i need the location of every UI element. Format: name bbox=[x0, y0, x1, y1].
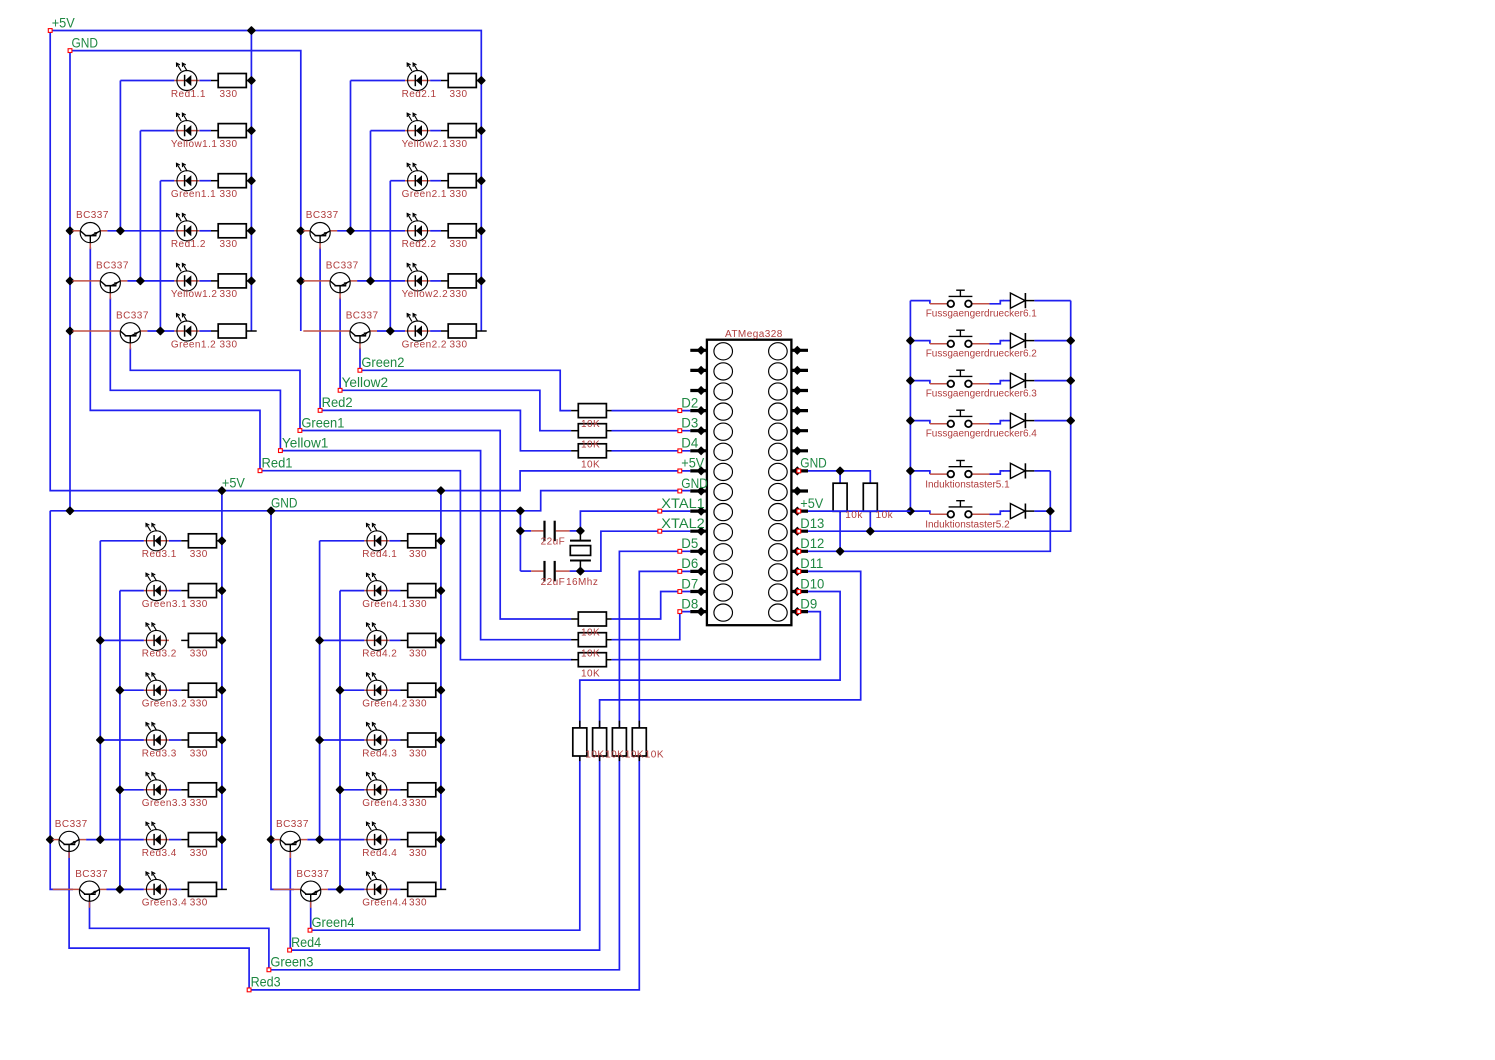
svg-text:BC337: BC337 bbox=[326, 260, 359, 271]
wire transistor to LED row 7 block3 bbox=[86, 839, 144, 841]
junction block2 trunk row y=230.8 bbox=[478, 227, 485, 234]
svg-text:D4: D4 bbox=[681, 436, 698, 451]
junction block3 trunk Red3.4 row bbox=[219, 836, 226, 843]
junction block3 trunk row y=690.2 bbox=[219, 687, 226, 694]
transistor Q7 BC337 bbox=[53, 831, 86, 858]
junction block1 LED trunk 3 bbox=[157, 328, 164, 335]
LED Green1.1 bbox=[174, 163, 199, 190]
junction block3 trunk row 0 bbox=[219, 537, 226, 544]
svg-text:Induktionstaster5.1: Induktionstaster5.1 bbox=[925, 479, 1010, 490]
svg-text:Red3.4: Red3.4 bbox=[142, 848, 177, 859]
wire LED row 6 block3 horizontal bbox=[120, 789, 144, 791]
svg-text:Green4: Green4 bbox=[312, 915, 355, 930]
resistor 330 (Green4.1) bbox=[401, 584, 441, 598]
junction block3 green trunk row3 bbox=[117, 786, 124, 793]
svg-text:10K: 10K bbox=[581, 459, 600, 470]
wire pushbutton S5 to diode bbox=[990, 471, 1004, 474]
wire diode D5.1 to rail bbox=[1034, 470, 1050, 472]
wire resistor R10K-3 to IC pin D4 bbox=[612, 450, 691, 452]
diode (Fussgaengerdruecker6.1) bbox=[1003, 293, 1034, 308]
LED Red4.1 bbox=[364, 523, 389, 550]
svg-text:330: 330 bbox=[450, 189, 468, 200]
wire resistor R10K-9 to net Green3 bbox=[269, 756, 620, 970]
wire pushbutton S2 to diode bbox=[990, 341, 1004, 344]
svg-text:330: 330 bbox=[190, 798, 208, 809]
wire LED row 7 block4 to resistor bbox=[389, 839, 400, 841]
wire pushbutton S6 to diode bbox=[990, 511, 1004, 514]
svg-text:D12: D12 bbox=[800, 536, 824, 551]
svg-text:Green2.1: Green2.1 bbox=[402, 189, 447, 200]
svg-text:10K: 10K bbox=[581, 648, 600, 659]
LED Yellow2.2 bbox=[405, 264, 430, 291]
wire LED row 3 block2 horizontal bbox=[390, 180, 405, 182]
wire LED row 1 block1 horizontal bbox=[120, 80, 174, 82]
junction bottom GND line / capacitor chain bbox=[517, 507, 524, 514]
wire Q1 base to net Red1 bbox=[90, 248, 260, 471]
svg-text:XTAL1: XTAL1 bbox=[661, 496, 705, 511]
junction block4 green trunk Q10 bbox=[337, 886, 344, 893]
svg-text:10k: 10k bbox=[845, 510, 863, 521]
junction GND rail Q9 row bbox=[268, 836, 275, 843]
svg-text:Green4.4: Green4.4 bbox=[362, 898, 407, 909]
resistor 10K (Red3/D6) bbox=[632, 721, 646, 761]
wire LED row 6 block1 to resistor bbox=[199, 330, 211, 332]
wire LED row 4 block3 to resistor bbox=[169, 689, 181, 691]
junction block1 LED trunk 1 bbox=[117, 227, 124, 234]
transistor Q3 BC337 bbox=[73, 323, 148, 350]
junction GND rail block2 y=280.9 bbox=[297, 278, 304, 285]
svg-text:10K: 10K bbox=[581, 439, 600, 450]
junction block4 red trunk Q9 bbox=[316, 836, 323, 843]
LED Green4.2 bbox=[364, 673, 389, 700]
svg-text:Yellow1.2: Yellow1.2 bbox=[171, 289, 218, 300]
svg-text:10K: 10K bbox=[645, 750, 664, 761]
junction block4 red trunk row3 bbox=[316, 737, 323, 744]
resistor 330 (Red3.3) bbox=[181, 733, 221, 747]
node +5V top anchor bbox=[48, 29, 52, 33]
wire Q7 base to net Red3 bbox=[69, 851, 249, 990]
svg-text:22uF: 22uF bbox=[541, 536, 566, 547]
wire LED row 2 block3 horizontal bbox=[120, 590, 144, 592]
svg-text:330: 330 bbox=[190, 649, 208, 660]
node GND top anchor bbox=[68, 49, 72, 53]
node D10 anchor bbox=[797, 590, 801, 594]
svg-text:+5V: +5V bbox=[681, 456, 704, 471]
wire LED row 5 block4 horizontal bbox=[320, 739, 365, 741]
resistor 330 (Green3.4) bbox=[181, 882, 227, 896]
LED Green4.1 bbox=[364, 573, 389, 600]
crystal Q11 16Mhz bbox=[570, 533, 591, 569]
wire LED row 1 block1 vertical to transistor bbox=[119, 81, 121, 231]
wire IC pin D5 to resistor R10K-9 bbox=[619, 551, 690, 728]
svg-text:Red3.2: Red3.2 bbox=[142, 649, 177, 660]
wire +5V block3 resistor trunk bbox=[221, 491, 223, 890]
junction block3 trunk row 1 bbox=[219, 637, 226, 644]
junction induction diode rail bbox=[1047, 508, 1054, 515]
node GND right anchor bbox=[797, 469, 801, 473]
junction block2 trunk row y=280.9 bbox=[478, 278, 485, 285]
svg-text:Green1: Green1 bbox=[301, 415, 344, 430]
junction block3 trunk row y=590.6 bbox=[219, 587, 226, 594]
resistor 330 (Red4.3) bbox=[401, 733, 441, 747]
junction block1 trunk row y=130.6 bbox=[248, 127, 255, 134]
ic U1 ATMega328 bbox=[690, 340, 808, 626]
resistor 10K (Yellow1/D8) bbox=[571, 633, 611, 647]
node Green2 anchor bbox=[358, 368, 362, 372]
wire transistor to LED row 7 block4 bbox=[307, 839, 364, 841]
wire resistor R10K-4 to IC pin D7 bbox=[612, 592, 691, 620]
svg-text:330: 330 bbox=[220, 289, 238, 300]
wire resistor R10K-6 under IC to pin D9 bbox=[612, 612, 821, 660]
node Red2 anchor bbox=[318, 409, 322, 413]
wire resistor R10K-8 to net Red4 bbox=[290, 756, 600, 950]
wire rail to pushbutton S4 bbox=[910, 421, 930, 424]
junction block4 trunk row 1 bbox=[438, 637, 445, 644]
wire GND bottom rail to IC GND pin bbox=[50, 491, 690, 511]
node Green1 anchor bbox=[298, 429, 302, 433]
wire LED row 1 block4 horizontal bbox=[320, 540, 365, 542]
LED Green3.4 bbox=[144, 872, 169, 899]
transistor Q6 BC337 bbox=[303, 323, 377, 350]
wire Q2 base to net Yellow1 bbox=[110, 298, 280, 451]
junction block3 trunk row 3 bbox=[219, 836, 226, 843]
junction block2 trunk row y=180.7 bbox=[478, 177, 485, 184]
LED Red4.2 bbox=[364, 623, 389, 650]
pushbutton Fussgaengerdruecker6.1 bbox=[930, 290, 990, 307]
wire block4 red LED trunk to Q9 bbox=[319, 541, 321, 840]
junction block4 trunk row 2 bbox=[438, 737, 445, 744]
diode (Induktionstaster5.1) bbox=[1003, 463, 1034, 478]
capacitor C1 22uF bbox=[531, 521, 569, 541]
svg-text:Yellow1.1: Yellow1.1 bbox=[171, 139, 218, 150]
node +5V IC anchor bbox=[678, 469, 682, 473]
junction block4 trunk row 0 bbox=[438, 537, 445, 544]
wire rail to pushbutton S5 bbox=[910, 471, 930, 474]
svg-text:Green4.3: Green4.3 bbox=[362, 798, 407, 809]
LED Green3.1 bbox=[144, 573, 169, 600]
svg-text:330: 330 bbox=[190, 898, 208, 909]
transistor Q1 BC337 bbox=[73, 223, 108, 250]
wire LED row 2 block2 horizontal bbox=[371, 130, 406, 132]
wire Q6 base to net Green2 bbox=[359, 348, 361, 371]
wire LED row 4 block4 horizontal bbox=[340, 689, 364, 691]
junction GND rail block1 y=280.9 bbox=[67, 278, 74, 285]
wire LED row 7 block3 to resistor bbox=[169, 839, 181, 841]
node Red3 anchor bbox=[247, 988, 251, 992]
LED Green2.1 bbox=[405, 163, 430, 190]
svg-text:10K: 10K bbox=[585, 750, 604, 761]
junction pushbutton rail / S5 feed bbox=[907, 468, 914, 475]
junction GND rail block2 y=230.8 bbox=[297, 227, 304, 234]
junction block3 trunk row y=789.8 bbox=[219, 786, 226, 793]
LED Red2.1 bbox=[405, 63, 430, 90]
wire GND top rail to block2 transistor rail bbox=[70, 51, 301, 331]
wire block3 red LED trunk to Q7 bbox=[99, 541, 101, 840]
wire GND chain to capacitor C2 bbox=[520, 570, 531, 572]
junction block4 green trunk row2 bbox=[337, 687, 344, 694]
svg-text:BC337: BC337 bbox=[96, 260, 129, 271]
resistor 330 (Green2.1) bbox=[441, 174, 481, 188]
svg-text:BC337: BC337 bbox=[76, 210, 109, 221]
junction pushbutton rail y=420.6 bbox=[907, 417, 914, 424]
resistor 10K (Green3/D5) bbox=[612, 721, 626, 761]
svg-text:BC337: BC337 bbox=[306, 210, 339, 221]
resistor 10K (Green2/D2) bbox=[571, 404, 611, 418]
wire transistor Q2 emitter to LED row 5 block1 bbox=[127, 280, 174, 282]
junction pushbutton rail y=340.6 bbox=[907, 337, 914, 344]
wire +5V top rail to block2 resistor trunk bbox=[50, 31, 481, 332]
LED Red2.2 bbox=[405, 213, 430, 240]
svg-text:Red3: Red3 bbox=[251, 975, 281, 990]
svg-text:330: 330 bbox=[220, 339, 238, 350]
svg-text:330: 330 bbox=[450, 289, 468, 300]
svg-text:330: 330 bbox=[220, 89, 238, 100]
wire resistor R10K-8 under IC to pin D11 bbox=[600, 571, 861, 728]
junction D12 row / resistor R10k-11 bbox=[837, 548, 844, 555]
svg-text:330: 330 bbox=[190, 748, 208, 759]
LED Red3.4 bbox=[144, 822, 169, 849]
wire rail to pushbutton S2 bbox=[910, 341, 930, 344]
svg-text:Green4.1: Green4.1 bbox=[362, 599, 407, 610]
wire LED row 5 block1 to resistor bbox=[199, 280, 211, 282]
wire LED row 6 block3 to resistor bbox=[169, 789, 181, 791]
svg-text:Red3.3: Red3.3 bbox=[142, 748, 177, 759]
resistor 10K (Green4/D10) bbox=[573, 721, 587, 761]
wire resistor R10K-7 under IC to pin D10 bbox=[580, 592, 840, 728]
svg-text:16Mhz: 16Mhz bbox=[566, 577, 598, 588]
resistor 10K (Red2/D4) bbox=[571, 444, 611, 458]
svg-text:Yellow2: Yellow2 bbox=[342, 375, 389, 390]
wire LED row 4 block3 horizontal bbox=[120, 689, 144, 691]
svg-text:330: 330 bbox=[220, 189, 238, 200]
node Green4 anchor bbox=[308, 928, 312, 932]
wire IC pin D13 to pushbutton diode rail bbox=[791, 301, 1070, 532]
junction block2 trunk row y=80.5 bbox=[478, 77, 485, 84]
junction +5V line / block3 trunk bbox=[219, 487, 226, 494]
LED Green3.3 bbox=[144, 772, 169, 799]
resistor 330 (Green3.1) bbox=[181, 584, 221, 598]
transistor Q8 BC337 bbox=[53, 881, 107, 908]
svg-text:330: 330 bbox=[409, 848, 427, 859]
wire LED row 5 block2 to resistor bbox=[430, 280, 441, 282]
wire +5V block1 resistor trunk bbox=[250, 31, 252, 332]
node D9 anchor bbox=[797, 610, 801, 614]
wire net Yellow1 to resistor R10K-5 bbox=[280, 451, 571, 640]
wire diode D4 to rail bbox=[1034, 420, 1070, 422]
junction block3 green trunk Q8 bbox=[117, 886, 124, 893]
svg-text:10K: 10K bbox=[605, 750, 624, 761]
svg-text:GND: GND bbox=[800, 456, 827, 471]
wire rail to pushbutton S6 bbox=[910, 511, 930, 514]
wire LED row 3 block4 horizontal bbox=[320, 639, 365, 641]
wire diode D5.2 to rail bbox=[1034, 510, 1050, 512]
junction block1 LED trunk 2 bbox=[137, 278, 144, 285]
wire LED row 2 block2 to resistor bbox=[430, 130, 441, 132]
wire net Red2 to resistor R10K-3 bbox=[320, 410, 571, 450]
wire LED row 5 block3 to resistor bbox=[169, 739, 181, 741]
wire LED row 2 block2 vertical to transistor bbox=[370, 131, 372, 281]
svg-text:330: 330 bbox=[409, 699, 427, 710]
junction block1 trunk row y=80.5 bbox=[248, 77, 255, 84]
junction GND rail block1 y=331.0 bbox=[67, 328, 74, 335]
wire LED row 2 block1 horizontal bbox=[140, 130, 174, 132]
svg-text:Red3.1: Red3.1 bbox=[142, 549, 177, 560]
wire transistor to LED row 8 block4 bbox=[328, 888, 365, 890]
wire resistor R10K-2 to IC pin D3 bbox=[612, 430, 691, 432]
LED Red1.1 bbox=[174, 63, 199, 90]
svg-text:330: 330 bbox=[409, 748, 427, 759]
resistor 330 (Green1.2) bbox=[211, 324, 257, 338]
wire transistor to LED row 8 block3 bbox=[107, 888, 144, 890]
junction +5V pin row / pushbutton rail bbox=[907, 508, 914, 515]
diode (Induktionstaster5.2) bbox=[1003, 504, 1034, 519]
svg-text:10K: 10K bbox=[581, 628, 600, 639]
wire resistor R10K-1 to IC pin D2 bbox=[612, 410, 691, 412]
wire Q5 base to net Yellow2 bbox=[339, 298, 341, 391]
svg-text:330: 330 bbox=[450, 239, 468, 250]
wire Q9 base to net Red4 bbox=[289, 851, 291, 950]
junction block1 trunk row y=230.8 bbox=[248, 227, 255, 234]
svg-text:XTAL2: XTAL2 bbox=[661, 516, 705, 531]
wire +5V block4 resistor trunk bbox=[440, 491, 442, 890]
resistor 10K (Yellow2/D3) bbox=[571, 424, 611, 438]
wire IC GND pin to resistor R10k-12 bbox=[791, 471, 870, 483]
diode (Fussgaengerdruecker6.4) bbox=[1003, 413, 1034, 428]
resistor 330 (Red3.4) bbox=[181, 833, 221, 847]
wire GND rail block4 to transistor Q10 bbox=[271, 511, 294, 890]
transistor Q9 BC337 bbox=[274, 831, 308, 858]
svg-text:D10: D10 bbox=[800, 576, 824, 591]
svg-text:D3: D3 bbox=[681, 416, 698, 431]
resistor 10K (Green1/D7) bbox=[571, 612, 611, 626]
svg-text:D7: D7 bbox=[681, 576, 698, 591]
svg-text:Red2.1: Red2.1 bbox=[402, 89, 437, 100]
transistor Q4 BC337 bbox=[303, 223, 337, 250]
wire transistor Q6 emitter to LED row 6 block2 bbox=[377, 330, 405, 332]
wire resistor R10k-12 bottom to D13 row bbox=[869, 511, 871, 531]
svg-text:10K: 10K bbox=[581, 419, 600, 430]
wire LED row 5 block4 to resistor bbox=[389, 739, 400, 741]
svg-text:Green3: Green3 bbox=[270, 955, 313, 970]
wire capacitor C1 to crystal top node bbox=[570, 530, 581, 532]
resistor 330 (Red3.2) bbox=[181, 633, 221, 647]
svg-text:10k: 10k bbox=[876, 510, 894, 521]
wire LED row 8 block4 to resistor bbox=[389, 888, 400, 890]
wire resistor R10k-11 top to GND row bbox=[839, 471, 841, 483]
resistor 330 (Green1.1) bbox=[211, 174, 251, 188]
LED Yellow1.1 bbox=[174, 113, 199, 140]
junction capacitor C1 left bbox=[517, 528, 524, 535]
node Green3 anchor bbox=[267, 968, 271, 972]
svg-text:Red1.1: Red1.1 bbox=[171, 89, 206, 100]
svg-text:D8: D8 bbox=[681, 596, 698, 611]
svg-text:330: 330 bbox=[409, 898, 427, 909]
wire IC pin D6 to resistor R10K-10 bbox=[639, 571, 690, 728]
wire GND chain to capacitor C1 bbox=[520, 530, 531, 532]
wire pushbutton supply rail bbox=[909, 301, 911, 512]
LED Red1.2 bbox=[174, 213, 199, 240]
junction block2 LED trunk 3 bbox=[387, 328, 394, 335]
svg-text:Red4.2: Red4.2 bbox=[362, 649, 397, 660]
junction GND rail block1 y=230.8 bbox=[67, 227, 74, 234]
wire transistor Q1 emitter to LED row 4 block1 bbox=[107, 230, 174, 232]
resistor 330 (Red4.4) bbox=[401, 833, 441, 847]
svg-text:GND: GND bbox=[681, 476, 708, 491]
svg-text:BC337: BC337 bbox=[296, 869, 329, 880]
wire capacitor C2 to crystal bottom node bbox=[570, 570, 581, 572]
wire net Red1 to resistor R10K-6 bbox=[260, 471, 573, 660]
svg-text:Green4.2: Green4.2 bbox=[362, 699, 407, 710]
node D5 anchor bbox=[678, 549, 682, 553]
wire LED row 4 block4 to resistor bbox=[389, 689, 400, 691]
pushbutton Fussgaengerdruecker6.2 bbox=[930, 330, 990, 347]
pushbutton Fussgaengerdruecker6.3 bbox=[930, 370, 990, 387]
junction block2 trunk row y=130.6 bbox=[478, 127, 485, 134]
LED Red4.3 bbox=[364, 723, 389, 750]
svg-text:330: 330 bbox=[190, 699, 208, 710]
node D12 anchor bbox=[797, 549, 801, 553]
svg-text:Green2: Green2 bbox=[361, 355, 404, 370]
svg-text:Red1: Red1 bbox=[262, 456, 293, 471]
node D3 anchor bbox=[678, 429, 682, 433]
wire pushbutton S1 to diode bbox=[990, 301, 1004, 304]
junction +5V / block1 trunk bbox=[248, 27, 255, 34]
junction GND rail Q7 row bbox=[47, 836, 54, 843]
svg-text:Fussgaengerdruecker6.2: Fussgaengerdruecker6.2 bbox=[926, 349, 1038, 360]
resistor 330 (Green4.3) bbox=[401, 783, 441, 797]
wire LED row 6 block4 to resistor bbox=[389, 789, 400, 791]
resistor 330 (Yellow2.2) bbox=[441, 274, 481, 288]
svg-text:Red4: Red4 bbox=[291, 935, 321, 950]
wire block3 green LED trunk to Q8 bbox=[119, 591, 121, 890]
LED Yellow2.1 bbox=[405, 113, 430, 140]
wire LED row 1 block2 horizontal bbox=[351, 80, 406, 82]
svg-text:ATMega328: ATMega328 bbox=[725, 329, 783, 340]
junction GND rail / bottom GND line bbox=[67, 507, 74, 514]
resistor 330 (Green4.4) bbox=[401, 882, 447, 896]
wire LED row 8 block3 to resistor bbox=[169, 888, 181, 890]
wire Q4 base to net Red2 bbox=[319, 248, 321, 411]
diode (Fussgaengerdruecker6.3) bbox=[1003, 373, 1034, 388]
wire +5V left rail down to bottom rail and to IC +5V pin bbox=[50, 31, 690, 491]
svg-text:Red2: Red2 bbox=[322, 395, 353, 410]
LED Red4.4 bbox=[364, 822, 389, 849]
svg-text:+5V: +5V bbox=[52, 15, 75, 30]
junction block3 red trunk row2 bbox=[97, 637, 104, 644]
junction pushbutton diode rail y=340.6 bbox=[1067, 337, 1074, 344]
wire LED row 3 block2 to resistor bbox=[430, 180, 441, 182]
resistor 10K (Red1/D9) bbox=[571, 653, 611, 667]
svg-text:BC337: BC337 bbox=[346, 310, 379, 321]
svg-text:22uF: 22uF bbox=[541, 577, 566, 588]
transistor Q2 BC337 bbox=[73, 273, 128, 300]
svg-text:Green1.1: Green1.1 bbox=[171, 189, 216, 200]
svg-text:BC337: BC337 bbox=[276, 819, 309, 830]
svg-text:330: 330 bbox=[450, 139, 468, 150]
wire net Green1 to resistor R10K-4 bbox=[300, 431, 571, 620]
junction block4 trunk row 3 bbox=[438, 836, 445, 843]
node +5V right anchor bbox=[797, 509, 801, 513]
svg-text:Red4.4: Red4.4 bbox=[362, 848, 397, 859]
junction block4 red trunk row2 bbox=[316, 637, 323, 644]
node D6 anchor bbox=[678, 570, 682, 574]
wire block4 green LED trunk to Q10 bbox=[339, 591, 341, 890]
wire IC pin D12 to induction diode rail bbox=[791, 471, 1050, 551]
wire LED row 1 block1 to resistor bbox=[199, 80, 211, 82]
wire LED row 2 block1 vertical to transistor bbox=[139, 131, 141, 281]
wire LED row 6 block2 to resistor bbox=[430, 330, 441, 332]
resistor 330 (Green2.2) bbox=[441, 324, 487, 338]
